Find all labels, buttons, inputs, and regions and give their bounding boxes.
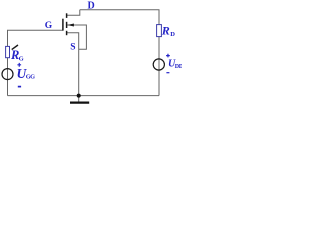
- svg-text:DD: DD: [175, 64, 182, 70]
- svg-text:GG: GG: [26, 74, 35, 81]
- svg-text:G: G: [45, 21, 53, 31]
- svg-text:S: S: [70, 43, 75, 53]
- svg-text:D: D: [170, 31, 175, 38]
- svg-text:R: R: [161, 24, 170, 38]
- svg-text:G: G: [19, 55, 24, 62]
- svg-text:D: D: [88, 1, 95, 12]
